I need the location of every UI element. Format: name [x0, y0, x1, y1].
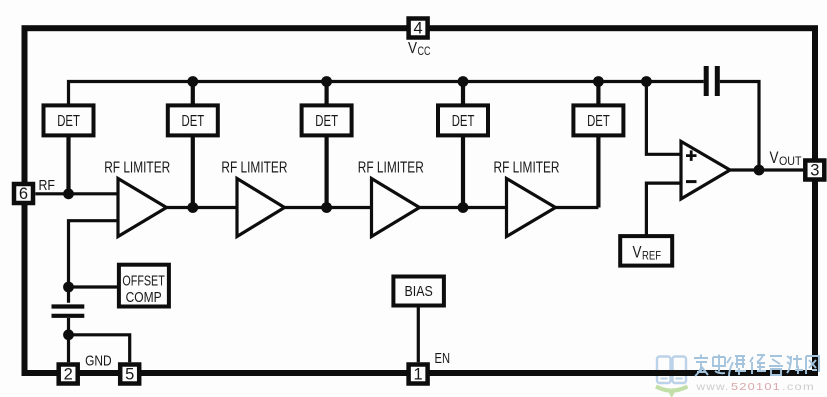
svg-text:RF LIMITER: RF LIMITER: [494, 160, 560, 177]
wire: op-amp non-inverting input: [646, 82, 681, 155]
junction: stage1 output: [187, 202, 198, 213]
pin 3: [805, 161, 824, 180]
amplifier RF LIMITER 3: [358, 160, 424, 237]
junction: RF input node: [63, 188, 74, 199]
junction: offset node: [63, 282, 74, 293]
svg-text:RF LIMITER: RF LIMITER: [358, 160, 424, 177]
wire: stage1 to stage2: [167, 206, 238, 209]
junction: stage3 output: [458, 202, 469, 213]
detector DET4: [438, 105, 488, 135]
svg-text:3: 3: [810, 162, 819, 180]
svg-text:OFFSET: OFFSET: [122, 273, 164, 290]
svg-text:6: 6: [19, 185, 28, 203]
RF label: [39, 177, 56, 194]
detector DET5: [573, 105, 623, 135]
svg-text:2: 2: [64, 366, 73, 384]
wire: stage4 output to DET5: [556, 206, 599, 209]
amplifier RF LIMITER 4: [494, 160, 560, 237]
svg-text:V: V: [408, 40, 417, 57]
svg-text:GND: GND: [85, 353, 112, 370]
watermark book logo (behind border): [656, 357, 688, 394]
wire: detector summing bus (left run with drop to DET1): [69, 82, 704, 104]
wire: DET3 top stub: [325, 82, 329, 104]
svg-text:DET: DET: [452, 113, 475, 130]
svg-text:DET: DET: [587, 113, 610, 130]
svg-text:www.: www.: [695, 381, 729, 393]
wire: DET5 bottom stub: [596, 135, 600, 207]
wire: stage3 to stage4: [420, 206, 507, 209]
pin 6: [14, 184, 33, 203]
svg-text:520101: 520101: [731, 381, 781, 393]
junction on bus at DET5: [593, 76, 604, 87]
svg-text:DET: DET: [315, 113, 338, 130]
wire: bus from capacitor to output node: [720, 82, 759, 171]
VCC label: [408, 40, 431, 58]
junction on bus at DET4: [458, 76, 469, 87]
wire: DET2 top stub: [191, 82, 195, 104]
svg-text:DET: DET: [57, 113, 80, 130]
svg-text:CC: CC: [418, 46, 431, 58]
block BIAS: [393, 277, 444, 306]
pin 2: [59, 365, 78, 384]
pin 1: [409, 365, 428, 384]
capacitor C1 (feedback): [706, 66, 717, 96]
junction: output node: [754, 165, 765, 176]
detector DET2: [168, 105, 218, 135]
junction on bus at DET3: [321, 76, 332, 87]
block OFFSET COMP: [119, 265, 169, 307]
svg-text:4: 4: [414, 20, 423, 38]
svg-text:DET: DET: [182, 113, 205, 130]
wire: BIAS to pin1: [417, 306, 420, 363]
watermark chinese text: [694, 355, 819, 377]
junction: stage2 output: [321, 202, 332, 213]
svg-text:1: 1: [414, 366, 423, 384]
wire: offset comp branch: [69, 285, 119, 288]
capacitor C2 (offset): [52, 307, 85, 316]
wire: DET3 bottom stub: [325, 135, 329, 207]
wire: op-amp output to pin3: [730, 168, 803, 171]
junction on bus to op-amp: [641, 76, 652, 87]
wire: cap to ground pins: [67, 318, 70, 362]
svg-text:V: V: [770, 149, 779, 167]
wire: ground branch to pin5: [69, 335, 130, 363]
wire: limiter1 lower input / offset node: [69, 221, 119, 303]
wire: stage2 to stage3: [285, 206, 372, 209]
amplifier RF LIMITER 1: [104, 160, 170, 237]
wire: DET1 bottom stub: [66, 135, 70, 193]
svg-text:.com: .com: [782, 381, 815, 393]
svg-text:RF LIMITER: RF LIMITER: [104, 160, 170, 177]
block VREF: [620, 236, 672, 266]
svg-text:RF LIMITER: RF LIMITER: [221, 160, 287, 177]
watermark url: [695, 381, 815, 393]
wire: RF input: [35, 192, 118, 195]
wire: DET4 top stub: [461, 82, 465, 104]
junction: ground node: [63, 329, 74, 340]
detector DET1: [44, 105, 94, 135]
GND label: [85, 353, 112, 370]
wire: DET2 bottom stub: [191, 135, 195, 207]
VOUT label: [770, 149, 803, 168]
amplifier RF LIMITER 2: [221, 160, 287, 237]
wire: op-amp inverting input from VREF: [646, 183, 681, 236]
svg-text:BIAS: BIAS: [405, 283, 433, 300]
junction on bus at DET2: [187, 76, 198, 87]
detector DET3: [302, 105, 352, 135]
pin 5: [120, 365, 139, 384]
pin 4: [409, 19, 428, 38]
wire: DET4 bottom stub: [461, 135, 465, 207]
svg-text:5: 5: [125, 366, 134, 384]
svg-text:OUT: OUT: [779, 154, 802, 168]
wire: DET5 top stub: [596, 82, 600, 104]
svg-text:COMP: COMP: [126, 289, 162, 306]
op-amp U1: [681, 141, 730, 199]
svg-text:V: V: [633, 244, 642, 262]
svg-text:REF: REF: [642, 249, 661, 263]
svg-text:EN: EN: [435, 350, 451, 367]
svg-text:RF: RF: [39, 177, 56, 194]
EN label: [435, 350, 451, 367]
